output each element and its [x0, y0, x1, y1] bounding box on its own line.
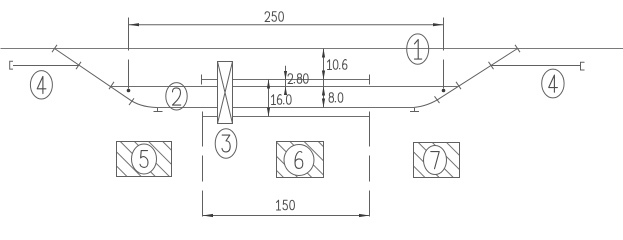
node 4 right — [542, 69, 564, 98]
element 4 right rail — [492, 62, 585, 70]
element 3 sluice gate — [218, 62, 233, 124]
element 7 hatched block — [414, 143, 460, 178]
element 5 hatched block — [117, 142, 172, 177]
dimension 150 — [203, 121, 370, 220]
dimension 250 — [127, 12, 446, 93]
node 2 — [166, 83, 187, 110]
ground tie right — [410, 108, 419, 112]
node 1 — [407, 34, 429, 64]
dimension 16.0 — [267, 80, 291, 117]
left slope — [52, 45, 157, 108]
wire line y79 bank top — [202, 75, 370, 85]
wire line y86 — [112, 86, 458, 88]
right slope — [414, 45, 521, 108]
ground line — [1, 48, 623, 50]
element 4 left rail — [10, 61, 79, 69]
ground tie left — [154, 108, 163, 112]
wire line y116 — [203, 112, 370, 122]
element 6 hatched block — [277, 142, 324, 178]
node 4 left — [30, 71, 52, 99]
dimension 2.80 — [284, 66, 308, 95]
node 3 — [215, 129, 237, 159]
wire line y107 channel bottom — [156, 107, 414, 109]
dimension 10.6 and 8.0 — [322, 49, 347, 108]
